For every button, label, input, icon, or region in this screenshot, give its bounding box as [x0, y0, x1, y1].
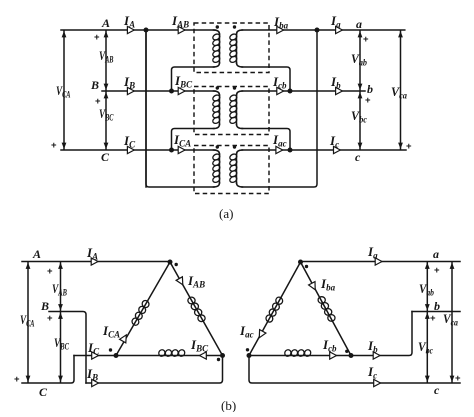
voltage arrow V_BC (fig a)	[104, 92, 109, 149]
label I_A (fig b)	[86, 245, 98, 262]
current arrow I_cb (fig b)	[330, 352, 337, 359]
current arrow I_ac	[276, 146, 283, 153]
right delta side ba wire	[301, 262, 352, 356]
label I_ba (fig b)	[320, 276, 336, 293]
label I_b (fig b)	[367, 338, 378, 355]
svg-text:c: c	[434, 383, 440, 397]
voltage arrow V_AB (fig a)	[104, 31, 109, 90]
label V_BC (fig a)	[99, 106, 114, 123]
transformer T1 primary polarity dot	[216, 25, 219, 28]
current arrow I_BC (fig b)	[200, 352, 207, 359]
left delta bottom wire BC	[116, 355, 223, 357]
label I_AB	[171, 13, 189, 30]
caption (b)	[221, 398, 236, 413]
current arrow I_B	[127, 87, 134, 94]
wire T2 primary return	[172, 129, 215, 151]
node on line C	[169, 148, 174, 153]
left delta winding CA	[131, 299, 151, 326]
plus V_AB (fig a)	[94, 32, 100, 43]
node on line B	[169, 89, 174, 94]
transformer T1 secondary polarity dot	[233, 25, 236, 28]
current arrow I_B (fig b)	[92, 379, 99, 386]
current arrow I_ba (fig b)	[309, 282, 316, 290]
label I_c	[329, 133, 339, 150]
right delta apex polarity dot	[305, 265, 308, 268]
plus V_BC (fig a)	[95, 96, 101, 107]
svg-text:+: +	[434, 265, 440, 276]
caption (a)	[219, 206, 233, 221]
current arrow I_a	[336, 26, 343, 33]
label I_CA	[102, 323, 120, 340]
node on line A / primary bus	[144, 28, 149, 33]
right delta corner c polarity dot	[246, 348, 249, 351]
terminal label b (fig b)	[434, 299, 440, 313]
left delta side AB wire	[170, 262, 223, 356]
terminal label a (fig a)	[356, 17, 362, 31]
current arrow I_C (fig b)	[92, 352, 99, 359]
svg-text:(b): (b)	[221, 398, 236, 412]
current arrow I_AB (fig b)	[176, 277, 183, 285]
node on line c	[288, 148, 293, 153]
terminal label B (fig a)	[90, 78, 99, 92]
plus V_AB (fig b)	[47, 266, 53, 277]
right delta winding ba	[318, 297, 335, 322]
left delta winding AB	[188, 297, 205, 322]
svg-text:A: A	[101, 16, 110, 30]
wire corner b to line b (fig b)	[351, 312, 412, 356]
svg-text:+: +	[406, 141, 412, 152]
plus V_CA (fig a)	[51, 140, 57, 151]
svg-text:a: a	[433, 247, 439, 261]
label V_AB (fig b)	[52, 281, 67, 298]
label V_bc (fig b)	[418, 339, 433, 356]
label I_cb	[272, 74, 287, 91]
wire line a (fig a)	[242, 29, 405, 31]
svg-text:B: B	[90, 78, 99, 92]
label V_BC (fig b)	[54, 335, 70, 352]
wire line b (fig a)	[242, 90, 365, 92]
label V_ab (fig b)	[419, 281, 434, 298]
wire T1 primary return	[172, 67, 215, 91]
label I_a (fig b)	[367, 244, 378, 261]
plus V_ab (fig b)	[434, 265, 440, 276]
wire line C jog (fig b)	[22, 356, 74, 384]
current arrow I_C	[127, 146, 134, 153]
wire corner c to line c (fig b)	[249, 356, 460, 384]
current arrow I_CA	[178, 146, 185, 153]
voltage arrow V_ab (fig b)	[425, 263, 430, 311]
label V_CA (fig b)	[20, 312, 35, 329]
voltage arrow V_AB (fig b)	[58, 263, 63, 311]
label V_ca (fig a)	[391, 84, 407, 101]
svg-text:C: C	[39, 385, 48, 399]
node on line b	[288, 89, 293, 94]
transformer T1 secondary winding	[229, 30, 243, 67]
left delta winding BC	[158, 349, 186, 358]
voltage arrow V_BC (fig b)	[58, 313, 63, 383]
svg-text:b: b	[434, 299, 440, 313]
plus V_bc (fig a)	[365, 95, 371, 106]
wire line c (fig a)	[242, 149, 406, 151]
wire line B jog (fig b)	[49, 312, 86, 384]
current arrow I_AB	[178, 26, 185, 33]
right delta side ac wire	[249, 262, 301, 356]
wire line A (fig a)	[61, 29, 215, 31]
terminal label C (fig b)	[39, 385, 48, 399]
svg-text:a: a	[356, 17, 362, 31]
terminal label a (fig b)	[433, 247, 439, 261]
terminal label c (fig b)	[434, 383, 440, 397]
current arrow I_b	[336, 87, 343, 94]
svg-text:+: +	[47, 313, 53, 324]
transformer T3 dashed box	[194, 146, 269, 194]
left delta corner C polarity dot	[109, 348, 112, 351]
left delta apex polarity dot	[175, 263, 178, 266]
right delta bottom wire cb	[249, 355, 351, 357]
terminal label b (fig a)	[367, 82, 373, 96]
left delta side CA wire	[116, 262, 170, 356]
left delta corner node B	[220, 353, 225, 358]
label V_CA (fig a)	[56, 83, 71, 100]
voltage arrow V_ca (fig a)	[398, 31, 403, 149]
plus V_bc (fig b)	[430, 313, 436, 324]
label I_a	[330, 13, 341, 30]
plus V_ca (fig b)	[455, 373, 461, 384]
voltage arrow V_ca (fig b)	[450, 263, 455, 383]
svg-text:+: +	[51, 140, 57, 151]
right delta winding cb	[284, 349, 312, 358]
label I_BC (fig b)	[190, 337, 209, 354]
right delta corner node c	[247, 353, 252, 358]
voltage arrow V_bc (fig a)	[358, 92, 363, 149]
terminal label A (fig b)	[32, 247, 41, 261]
wire line a (fig b)	[301, 261, 461, 263]
plus V_ca (fig a)	[406, 141, 412, 152]
label I_ac	[272, 132, 287, 149]
terminal label A (fig a)	[101, 16, 110, 30]
svg-text:C: C	[101, 150, 110, 164]
label I_A (fig a)	[123, 13, 135, 30]
voltage arrow V_bc (fig b)	[425, 313, 430, 383]
wire T2 secondary return	[242, 129, 290, 151]
left delta apex node	[168, 260, 173, 265]
label I_B (fig a)	[123, 74, 135, 91]
voltage arrow V_CA (fig b)	[26, 263, 31, 383]
terminal label c (fig a)	[355, 150, 361, 164]
label V_ab (fig a)	[351, 51, 367, 68]
transformer T1 dashed box	[194, 23, 269, 73]
left delta corner B polarity dot	[217, 358, 220, 361]
label I_CA	[173, 132, 191, 149]
transformer T1 primary winding	[212, 30, 221, 67]
wire line C to delta corner (fig b)	[74, 355, 116, 357]
plus V_BC (fig b)	[47, 313, 53, 324]
current arrow I_A (fig b)	[91, 258, 98, 265]
svg-text:B: B	[40, 299, 49, 313]
terminal label B (fig b)	[40, 299, 49, 313]
transformer T2 primary polarity dot	[216, 86, 219, 89]
svg-text:+: +	[47, 266, 53, 277]
wire T3 secondary return / secondary bus	[242, 30, 317, 187]
svg-text:(a): (a)	[219, 206, 233, 221]
wire line B to delta corner (fig b)	[86, 356, 223, 384]
wire line A (fig b)	[22, 261, 170, 263]
label I_BC	[174, 73, 193, 90]
right delta corner node b	[349, 353, 354, 358]
svg-text:+: +	[365, 95, 371, 106]
transformer T3 primary polarity dot	[216, 145, 219, 148]
svg-text:A: A	[32, 247, 41, 261]
current arrow I_BC	[178, 87, 185, 94]
label I_B (fig b)	[86, 366, 98, 383]
current arrow I_c	[334, 146, 341, 153]
right delta corner b polarity dot	[345, 350, 348, 353]
current arrow I_a (fig b)	[375, 258, 382, 265]
label I_b	[330, 74, 341, 91]
svg-text:+: +	[95, 96, 101, 107]
current arrow I_CA	[120, 335, 127, 343]
current arrow I_ac (fig b)	[259, 330, 266, 338]
right delta apex node	[298, 260, 303, 265]
wire line B (fig a)	[102, 90, 215, 92]
svg-text:+: +	[14, 374, 20, 385]
right delta winding ac	[265, 296, 284, 324]
transformer T2 primary winding	[212, 91, 221, 129]
label V_bc (fig a)	[351, 108, 367, 125]
svg-text:+: +	[430, 313, 436, 324]
voltage arrow V_CA (fig a)	[62, 31, 67, 149]
label V_AB (fig a)	[99, 48, 114, 65]
wire line b (fig b)	[412, 311, 460, 313]
wire line C (fig a)	[61, 149, 215, 151]
current arrow I_cb	[277, 87, 284, 94]
current arrow I_A	[127, 26, 134, 33]
svg-text:+: +	[94, 32, 100, 43]
label I_cb (fig b)	[322, 337, 337, 354]
label I_ac (fig b)	[239, 323, 254, 340]
left delta corner node C	[114, 353, 119, 358]
label I_c (fig b)	[367, 364, 377, 381]
label I_AB (fig b)	[187, 273, 205, 290]
wire T1 secondary return	[242, 67, 290, 91]
node on line a	[315, 28, 320, 33]
svg-text:+: +	[455, 373, 461, 384]
label I_ba	[273, 14, 289, 31]
svg-text:+: +	[363, 34, 369, 45]
plus V_ab (fig a)	[363, 34, 369, 45]
transformer T3 secondary winding	[229, 150, 243, 187]
transformer T2 dashed box	[194, 87, 269, 135]
current arrow I_b (fig b)	[373, 352, 380, 359]
label I_C (fig b)	[87, 340, 100, 357]
transformer T3 secondary polarity dot	[233, 145, 236, 148]
transformer T3 primary winding	[212, 150, 221, 187]
current arrow I_c (fig b)	[374, 379, 381, 386]
plus V_CA (fig b)	[14, 374, 20, 385]
terminal label C (fig a)	[101, 150, 110, 164]
voltage arrow V_ab (fig a)	[358, 31, 363, 90]
wire T3 primary return	[146, 30, 214, 187]
label V_ca (fig b)	[443, 311, 458, 328]
current arrow I_ba	[277, 26, 284, 33]
label I_C (fig a)	[123, 133, 136, 150]
transformer T2 secondary winding	[229, 91, 243, 129]
svg-text:b: b	[367, 82, 373, 96]
transformer T2 secondary polarity dot	[233, 86, 236, 89]
wire primary bus vertical	[145, 30, 147, 187]
svg-text:c: c	[355, 150, 361, 164]
